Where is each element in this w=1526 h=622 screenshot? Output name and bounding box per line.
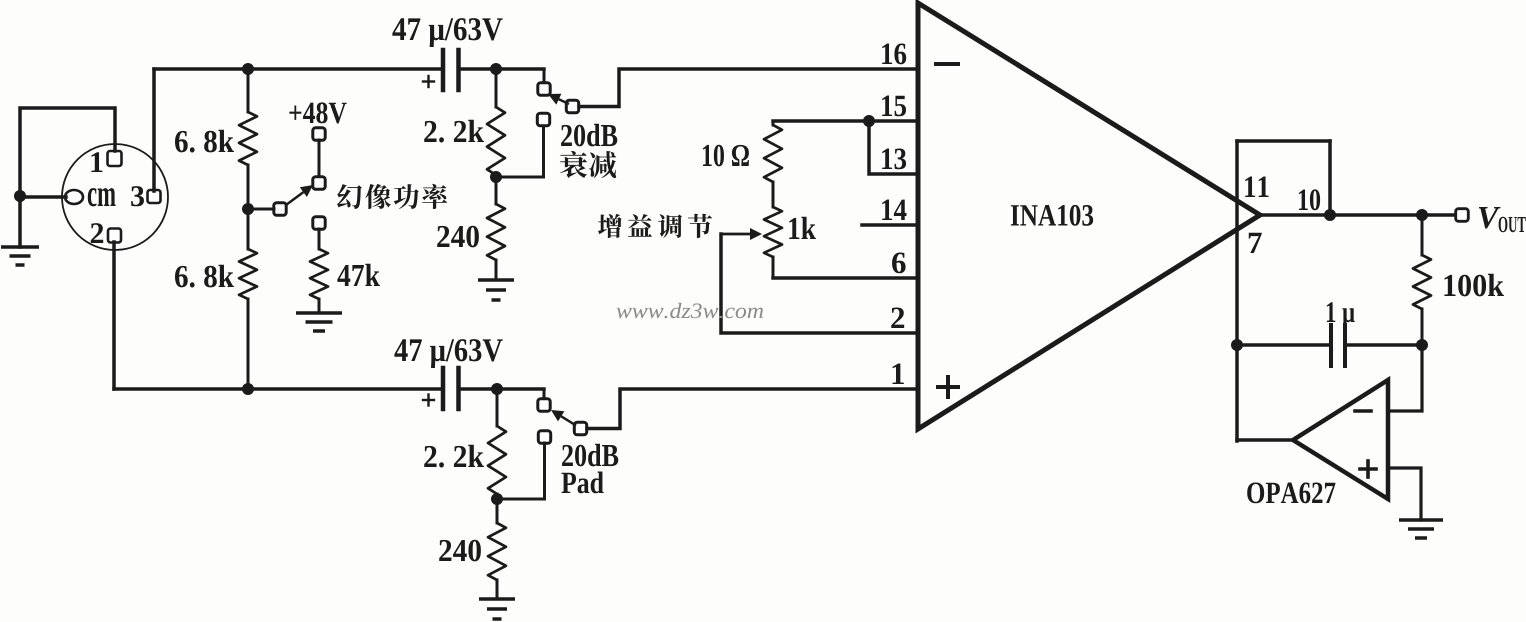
C1 polarity plus <box>423 76 434 87</box>
wire U2 output to pin7 vertical <box>1237 438 1293 442</box>
C2 polarity plus <box>423 395 434 406</box>
wire C1 to attenuator node <box>460 67 544 71</box>
potentiometer 1k <box>764 207 782 278</box>
wire pin11 feedback box left and pin7 vertical <box>1235 141 1239 441</box>
wire top rail pin3 to C1 <box>154 67 441 71</box>
wire node B to U2 inverting input <box>1388 345 1422 411</box>
wire pin15 to pin13 tie <box>869 121 918 174</box>
label 100k <box>1444 274 1504 297</box>
junction 2.2k/240 top node <box>490 171 502 183</box>
switch S1 blade with arrow <box>286 192 303 205</box>
watermark www.dz3w.com <box>617 303 763 319</box>
resistor 10 ohm <box>764 121 782 207</box>
resistor 240 bottom <box>488 499 506 599</box>
wire bottom rail pin2 to C2 <box>114 387 441 391</box>
pin label 1 <box>892 364 903 384</box>
U2 non-inverting input plus <box>1360 461 1376 477</box>
label Pad <box>561 471 603 493</box>
junction bottom rail at 6.8k lower <box>242 383 254 395</box>
junction phantom feed node <box>242 203 254 215</box>
Vout terminal <box>1456 209 1469 222</box>
ground 47k <box>296 313 342 331</box>
pin label 16 <box>882 43 906 64</box>
switch S3 lower contact <box>538 431 550 443</box>
junction node A pin7/cap <box>1231 339 1243 351</box>
label INA103 <box>1011 205 1093 226</box>
junction C1 output node <box>490 63 502 75</box>
switch S3 blade with arrow <box>561 416 576 425</box>
resistor 2.2k bottom <box>488 389 506 499</box>
switch S2 pole contact <box>566 100 578 112</box>
ground OPA627 <box>1399 520 1443 538</box>
label 10 ohm <box>703 145 749 167</box>
XLR pin 2 label <box>91 223 103 243</box>
ground XLR shield <box>1 247 39 265</box>
wire pot bottom to INA103 pin 6 <box>773 276 918 280</box>
op-amp U1 INA103 body <box>918 3 1260 429</box>
wire S2 pole to INA103 pin 16 <box>579 69 918 107</box>
XLR microphone connector shell <box>62 144 168 250</box>
label 20dB top <box>561 124 617 147</box>
switch S3 pole contact <box>574 422 586 434</box>
resistor 47k <box>310 229 328 313</box>
pin label 10 <box>1299 189 1320 210</box>
op-amp U2 OPA627 body <box>1293 380 1388 499</box>
XLR cm label <box>88 188 116 206</box>
resistor 2.2k top <box>487 69 505 177</box>
switch S2 lower contact <box>537 113 549 125</box>
wire XLR pin3 to top rail <box>152 69 156 191</box>
wire S3 pole to INA103 pin 1 <box>587 389 918 429</box>
capacitor C1 47u/63V top plates <box>443 50 459 90</box>
wire U2 non-inverting input to ground <box>1388 468 1421 520</box>
label 47k <box>337 264 380 286</box>
wire feedback box top <box>1237 139 1330 143</box>
pin label 13 <box>882 148 906 169</box>
label 240 bottom <box>439 540 481 562</box>
label OPA627 <box>1247 482 1335 503</box>
pin label 14 <box>882 200 906 220</box>
label 1u <box>1327 302 1355 328</box>
wire S2 lower contact to 2.2k bottom <box>496 126 544 177</box>
label 2.2k top <box>424 120 484 143</box>
pin label 7 <box>1249 233 1262 253</box>
wire shield node to ground <box>18 196 22 247</box>
wire +48V terminal to switch contact <box>318 140 321 178</box>
wire XLR pin2 down to bottom rail <box>112 242 116 389</box>
switch S3 upper contact <box>538 399 550 411</box>
label 6.8k lower <box>175 265 234 288</box>
switch S1 phantom power upper contact <box>313 177 325 189</box>
wire S3 lower contact to 240 bottom node <box>497 443 545 499</box>
wire pot wiper to INA103 pin 2 <box>721 234 918 333</box>
pin label 6 <box>892 252 906 273</box>
label 20dB bottom <box>562 444 618 467</box>
XLR pin 1 terminal <box>108 151 122 166</box>
wire INA103 output to Vout <box>1260 213 1455 217</box>
+48V supply terminal <box>313 128 325 140</box>
U2 inverting input minus <box>1355 409 1371 413</box>
capacitor C2 47u/63V bottom plates <box>443 368 459 409</box>
junction shield node <box>14 190 26 202</box>
label phantom power (Chinese) <box>337 184 362 209</box>
ground 240 top <box>478 280 514 300</box>
wire XLR cm pin to shield node <box>20 195 66 199</box>
wire XLR pin1 to shield node <box>20 108 115 196</box>
junction feedback box at output <box>1324 209 1336 221</box>
wire INA103 pin 15 line <box>773 119 918 123</box>
XLR pin 3 terminal <box>148 190 161 203</box>
capacitor C3 1u <box>1237 325 1422 366</box>
U1 inverting input minus <box>936 62 958 66</box>
wire feedback box right pin10 <box>1328 141 1332 215</box>
label 47u/63V top <box>392 18 502 47</box>
junction top rail at 6.8k upper <box>242 63 254 75</box>
junction 2.2k/240 bottom node <box>491 493 503 505</box>
resistor 240 top <box>487 177 505 280</box>
wire C2 to pad node <box>460 387 544 391</box>
pin label 15 <box>882 96 906 117</box>
label 47u/63V bottom <box>394 339 502 368</box>
label 240 top <box>437 226 479 248</box>
junction C2 output node <box>491 383 503 395</box>
label gain adjust (Chinese) <box>598 214 622 238</box>
label 2.2k bottom <box>424 445 484 468</box>
U1 non-inverting input plus <box>938 377 958 397</box>
switch S2 20dB attenuation wire to upper contact <box>543 69 546 84</box>
XLR pin 1 label <box>91 152 102 172</box>
potentiometer 1k wiper arrow <box>721 233 750 236</box>
label attenuation (Chinese) <box>560 151 587 178</box>
junction 100k at output <box>1416 209 1428 221</box>
resistor 6.8k upper <box>239 69 257 209</box>
XLR pin cm (shield) terminal <box>65 190 83 204</box>
switch S3 20dB pad wire to upper contact <box>543 389 546 400</box>
junction pin15/pin13 tie <box>863 115 875 127</box>
switch S1 pole contact <box>274 203 286 215</box>
resistor 100k <box>1413 215 1431 345</box>
resistor 6.8k lower <box>239 209 257 389</box>
label 6.8k upper <box>175 130 234 153</box>
label +48V <box>289 102 346 123</box>
switch S1 lower contact <box>313 217 325 229</box>
junction node B 100k/cap <box>1416 339 1428 351</box>
switch S2 upper contact <box>538 83 550 95</box>
pin label 2 <box>891 307 904 328</box>
XLR pin 2 terminal <box>108 229 121 243</box>
label Vout <box>1479 207 1501 228</box>
pin label 11 <box>1245 177 1268 197</box>
wire phantom node to switch pole <box>248 208 274 211</box>
wire INA103 pin 14 stub <box>862 223 918 227</box>
switch S2 blade with arrow <box>559 99 569 104</box>
label 1k <box>789 217 816 239</box>
XLR pin 3 label <box>131 186 144 206</box>
ground 240 bottom <box>479 599 515 619</box>
